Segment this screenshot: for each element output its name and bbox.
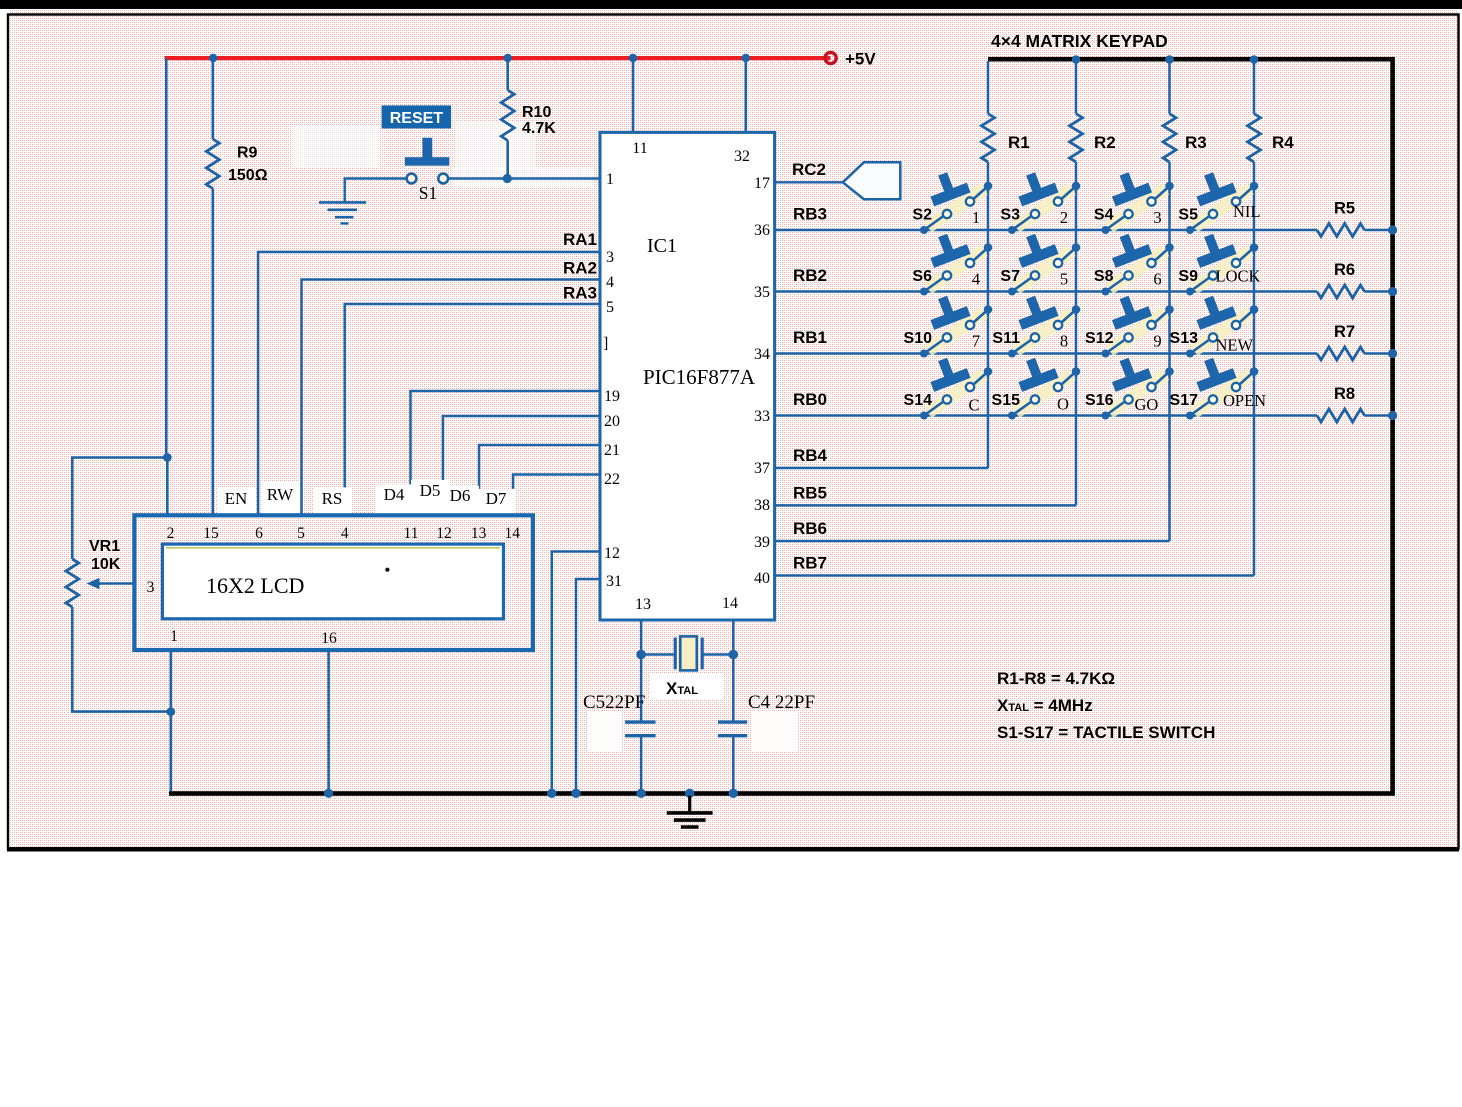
svg-text:39: 39 — [754, 534, 770, 551]
column 2 wire upper — [1075, 61, 1078, 114]
svg-text:4×4 MATRIX KEYPAD: 4×4 MATRIX KEYPAD — [991, 31, 1168, 51]
svg-text:S5: S5 — [1178, 207, 1198, 224]
wire pin20 to LCD D5 — [443, 416, 600, 516]
resistor R3 — [1163, 114, 1176, 162]
svg-text:R8: R8 — [1334, 385, 1355, 403]
node junction crystal left — [636, 650, 646, 660]
svg-text:VR1: VR1 — [89, 538, 120, 555]
tactile switch S7 — [1008, 228, 1080, 295]
wire R10 top lead — [506, 58, 509, 90]
ground symbol main — [688, 796, 691, 812]
svg-text:R1: R1 — [1008, 133, 1030, 152]
tactile switch S14 — [920, 352, 992, 419]
resistor R1 — [982, 114, 995, 162]
wire RB7 to keypad column — [775, 574, 1254, 577]
svg-text:1: 1 — [972, 208, 980, 227]
svg-text:RB1: RB1 — [793, 328, 827, 347]
tactile switch S9 — [1186, 228, 1258, 295]
svg-text:S2: S2 — [912, 207, 932, 224]
wire R9 bottom lead to LCD pin 15 — [212, 189, 215, 516]
wire RB5 to keypad column — [775, 504, 1076, 507]
svg-text:S10: S10 — [904, 330, 933, 347]
ground symbol at S1 — [319, 201, 366, 204]
RC2 buzzer tag symbol — [843, 162, 901, 199]
svg-text:37: 37 — [754, 460, 770, 477]
svg-text:EN: EN — [225, 489, 248, 508]
white artifact patch right of RESET — [455, 122, 535, 170]
resistor R10 — [501, 90, 514, 141]
svg-text:S8: S8 — [1094, 268, 1114, 285]
svg-text:2: 2 — [1060, 208, 1068, 227]
svg-text:34: 34 — [754, 346, 770, 363]
crystal XTAL — [641, 653, 673, 656]
4x4 matrix keypad frame — [988, 59, 1393, 793]
svg-text:35: 35 — [754, 284, 770, 301]
svg-text:RB7: RB7 — [793, 554, 827, 573]
svg-text:1: 1 — [170, 628, 178, 645]
svg-text:GO: GO — [1135, 395, 1159, 414]
resistor R9 — [206, 139, 219, 189]
svg-text:RA2: RA2 — [563, 259, 597, 278]
wire R6 to frame — [1365, 290, 1393, 293]
wire left rail from +5V — [165, 58, 168, 458]
svg-text:R7: R7 — [1334, 323, 1355, 341]
speck inside LCD — [385, 568, 389, 572]
svg-text:11: 11 — [404, 525, 419, 542]
svg-text:3: 3 — [1153, 208, 1161, 227]
schematic canvas background — [9, 10, 1458, 847]
svg-text:40: 40 — [754, 570, 770, 587]
+5V terminal — [825, 52, 836, 63]
switch S1 plunger — [422, 138, 432, 159]
node junction column 2 top — [1072, 55, 1081, 64]
node junction R9 on +5V rail — [209, 54, 217, 62]
resistor R2 — [1070, 114, 1083, 162]
svg-text:D6: D6 — [450, 486, 471, 505]
svg-text:13: 13 — [471, 525, 487, 542]
svg-text:C: C — [968, 396, 979, 415]
column 2 wire lower — [1075, 162, 1078, 505]
svg-text:6: 6 — [255, 525, 263, 542]
svg-text:6: 6 — [1153, 270, 1161, 289]
svg-text:13: 13 — [635, 596, 651, 613]
wire row RB0 pin — [775, 414, 1317, 417]
ground bus bar — [169, 791, 1395, 796]
svg-text:S6: S6 — [912, 268, 932, 285]
svg-text:NIL: NIL — [1233, 202, 1261, 221]
svg-text:S1-S17 = TACTILE SWITCH: S1-S17 = TACTILE SWITCH — [997, 723, 1215, 742]
wire row RB3 pin — [775, 229, 1317, 232]
svg-text:36: 36 — [754, 222, 770, 239]
svg-text:7: 7 — [972, 332, 980, 351]
svg-text:4: 4 — [972, 270, 980, 289]
olive highlight line inside LCD — [166, 547, 500, 549]
svg-text:16: 16 — [321, 630, 337, 647]
svg-text:S13: S13 — [1170, 330, 1199, 347]
column 1 wire lower — [987, 162, 990, 468]
svg-text:38: 38 — [754, 497, 770, 514]
svg-text:C4 22PF: C4 22PF — [748, 692, 815, 713]
svg-text:12: 12 — [604, 545, 620, 562]
wire S1 to ground — [345, 179, 406, 203]
svg-text:15: 15 — [203, 525, 219, 542]
wire pin21 to LCD D6 — [479, 445, 600, 516]
tactile switch S11 — [1008, 290, 1080, 357]
svg-text:4.7K: 4.7K — [522, 120, 556, 137]
wire to VR1 top — [72, 458, 167, 560]
svg-text:RB5: RB5 — [793, 483, 827, 502]
node junction R10 on +5V rail — [504, 54, 512, 62]
svg-text:14: 14 — [722, 595, 738, 612]
capacitor C4 — [718, 720, 747, 723]
svg-text:20: 20 — [604, 413, 620, 430]
column 3 wire upper — [1168, 61, 1171, 114]
wire pin19 to LCD D4 — [411, 391, 601, 516]
svg-text:5: 5 — [606, 299, 614, 316]
wire pin14 to crystal — [732, 620, 735, 722]
svg-text:OPEN: OPEN — [1223, 391, 1266, 410]
svg-text:RW: RW — [267, 485, 294, 504]
wire junction to LCD pin 2 — [166, 458, 169, 516]
wire row RB1 pin — [775, 352, 1317, 355]
svg-text:9: 9 — [1153, 332, 1161, 351]
svg-text:RESET: RESET — [390, 110, 444, 127]
wire R7 to frame — [1365, 352, 1393, 355]
svg-text:R4: R4 — [1272, 133, 1294, 152]
svg-text:RB6: RB6 — [793, 519, 827, 538]
svg-text:32: 32 — [734, 148, 750, 165]
svg-text:19: 19 — [604, 388, 620, 405]
wire pin31 to ground bus — [576, 579, 600, 791]
svg-text:5: 5 — [297, 525, 305, 542]
resistor R5 — [1317, 224, 1365, 237]
svg-text:IC1: IC1 — [647, 235, 677, 257]
tactile switch S13 — [1186, 290, 1258, 357]
node junction pin12 wire on bus — [547, 789, 556, 798]
wire RA2 pin4 to LCD pin5 — [302, 280, 601, 516]
wire VR1 bottom to LCD pin1 node — [72, 607, 171, 712]
wire row RB2 pin — [775, 290, 1317, 293]
tactile switch S2 — [920, 167, 992, 234]
svg-text:NEW: NEW — [1216, 336, 1254, 355]
node junction pin32 on +5V rail — [742, 54, 750, 62]
wire rail to pin 11 — [632, 58, 635, 133]
VR1 wiper arrow from LCD pin 3 — [97, 582, 136, 584]
svg-text:D4: D4 — [384, 485, 405, 504]
svg-text:22: 22 — [604, 471, 620, 488]
node junction R8 frame — [1388, 411, 1397, 420]
svg-text:R2: R2 — [1094, 133, 1116, 152]
svg-text:D5: D5 — [420, 481, 441, 500]
svg-text:S1: S1 — [419, 183, 437, 203]
node junction pin11 on +5V rail — [629, 54, 637, 62]
wire rail to pin 32 — [744, 58, 747, 133]
tactile switch S10 — [920, 290, 992, 357]
svg-text:RA3: RA3 — [563, 284, 597, 303]
svg-text:4: 4 — [341, 525, 349, 542]
svg-text:150Ω: 150Ω — [228, 167, 268, 184]
wire R10 bottom lead — [506, 141, 509, 179]
svg-text:RB3: RB3 — [793, 205, 827, 224]
svg-text:11: 11 — [632, 140, 647, 157]
tactile switch S6 — [920, 228, 992, 295]
node junction R10/S1/pin1 — [503, 174, 512, 183]
svg-text:33: 33 — [754, 408, 770, 425]
wire RA3 pin5 to LCD pin4 — [345, 304, 600, 516]
switch S1 contacts — [407, 174, 417, 184]
white patches behind LCD control labels — [217, 487, 255, 515]
top torn-edge black bar — [0, 0, 1462, 9]
tactile switch S3 — [1008, 167, 1080, 234]
svg-text:RC2: RC2 — [792, 160, 826, 179]
node junction crystal right — [729, 650, 739, 660]
tactile switch S16 — [1102, 352, 1174, 419]
node junction ground stem — [685, 789, 694, 798]
resistor R4 — [1248, 114, 1261, 162]
LCD module outer box — [134, 515, 533, 650]
node junction LCD pin16 on bus — [324, 789, 333, 798]
node junction pin31 wire on bus — [571, 789, 580, 798]
svg-text:S14: S14 — [904, 392, 933, 409]
white patch near C5 — [588, 712, 622, 752]
svg-text:S11: S11 — [992, 330, 1020, 347]
svg-text:PIC16F877A: PIC16F877A — [643, 365, 756, 389]
wire R8 to frame — [1365, 414, 1393, 417]
wire RA1 pin3 to LCD pin6 — [258, 252, 600, 516]
svg-text:RB2: RB2 — [793, 266, 827, 285]
LCD display inner box — [162, 544, 503, 619]
RESET label box — [382, 105, 452, 128]
white patch near C4 — [752, 712, 798, 752]
svg-text:R3: R3 — [1185, 133, 1207, 152]
node junction C5 on bus — [636, 789, 645, 798]
svg-text:14: 14 — [505, 525, 521, 542]
capacitor C5 — [625, 720, 656, 723]
+5V power rail — [165, 56, 831, 60]
tactile switch S12 — [1102, 290, 1174, 357]
resistor R6 — [1317, 285, 1365, 298]
svg-text:1: 1 — [606, 171, 614, 188]
svg-text:LOCK: LOCK — [1216, 267, 1261, 286]
potentiometer VR1 body — [66, 559, 79, 607]
svg-text:8: 8 — [1060, 332, 1068, 351]
white artifact patch left of RESET — [292, 126, 380, 168]
svg-text:RS: RS — [322, 489, 343, 508]
node junction LCD pin2 / VR1 — [163, 453, 172, 462]
svg-text:S17: S17 — [1170, 392, 1199, 409]
wire LCD pin16 to ground bus — [327, 650, 330, 791]
svg-text:5: 5 — [1060, 270, 1068, 289]
node junction VR1/LCD pin1 — [166, 707, 175, 716]
svg-text:D7: D7 — [486, 489, 507, 508]
svg-text:R5: R5 — [1334, 200, 1355, 218]
column 4 wire upper — [1253, 61, 1256, 114]
wire RB4 to keypad column — [775, 467, 988, 470]
node junction R7 frame — [1388, 349, 1397, 358]
svg-text:4: 4 — [606, 274, 614, 291]
wire S1 to MCLR node — [449, 177, 601, 179]
white patch behind XTAL label — [649, 674, 723, 700]
svg-text:3: 3 — [606, 249, 614, 266]
resistor R7 — [1317, 347, 1365, 360]
node junction R5 frame — [1388, 225, 1397, 234]
node junction C4 on bus — [729, 789, 738, 798]
IC U1 PIC16F877A body — [600, 132, 775, 620]
svg-text:S9: S9 — [1178, 268, 1198, 285]
wire LCD pin1 to ground bus — [170, 650, 173, 791]
svg-text:31: 31 — [606, 573, 622, 590]
svg-text:10K: 10K — [91, 556, 121, 573]
wire pin13 to crystal — [640, 620, 643, 722]
column 1 wire upper — [987, 61, 990, 114]
svg-text:C522PF: C522PF — [583, 692, 645, 713]
svg-text:RB0: RB0 — [793, 390, 827, 409]
tactile switch S4 — [1102, 167, 1174, 234]
svg-text:S15: S15 — [992, 392, 1021, 409]
wire R5 to frame — [1365, 229, 1393, 232]
svg-text:S12: S12 — [1085, 330, 1114, 347]
tactile switch S5 — [1186, 167, 1258, 234]
tactile switch S8 — [1102, 228, 1174, 295]
svg-text:2: 2 — [167, 525, 175, 542]
node junction column 3 top — [1165, 55, 1174, 64]
svg-text:S7: S7 — [1000, 268, 1020, 285]
svg-text:]: ] — [603, 335, 608, 352]
resistor R8 — [1317, 409, 1365, 422]
svg-text:16X2 LCD: 16X2 LCD — [206, 573, 304, 598]
svg-text:21: 21 — [604, 442, 620, 459]
svg-text:RB4: RB4 — [793, 446, 828, 465]
tactile switch S17 — [1186, 352, 1258, 419]
svg-text:S4: S4 — [1094, 207, 1114, 224]
svg-text:12: 12 — [436, 525, 452, 542]
svg-text:R1-R8 = 4.7KΩ: R1-R8 = 4.7KΩ — [997, 669, 1115, 688]
svg-text:R9: R9 — [237, 145, 258, 162]
svg-text:RA1: RA1 — [563, 230, 597, 249]
svg-text:+5V: +5V — [845, 50, 876, 69]
white artifact patch S1 wire — [452, 168, 594, 188]
wire R9 top lead — [212, 58, 215, 139]
outer page border frame — [8, 15, 1459, 849]
svg-text:O: O — [1057, 395, 1069, 414]
column 4 wire lower — [1253, 162, 1256, 576]
node junction column 4 top — [1250, 55, 1259, 64]
wire RC2 pin17 — [775, 181, 843, 183]
svg-text:3: 3 — [147, 579, 155, 596]
svg-text:S16: S16 — [1085, 392, 1114, 409]
tactile switch S15 — [1008, 352, 1080, 419]
svg-text:S3: S3 — [1000, 207, 1020, 224]
wire RB6 to keypad column — [775, 540, 1170, 543]
svg-text:17: 17 — [754, 175, 770, 192]
column 3 wire lower — [1168, 162, 1171, 541]
svg-text:R10: R10 — [522, 104, 551, 121]
node junction R6 frame — [1388, 287, 1397, 296]
wire pin12 to ground bus — [552, 552, 600, 792]
wire pin22 to LCD D7 — [513, 475, 600, 516]
svg-text:R6: R6 — [1334, 261, 1355, 279]
